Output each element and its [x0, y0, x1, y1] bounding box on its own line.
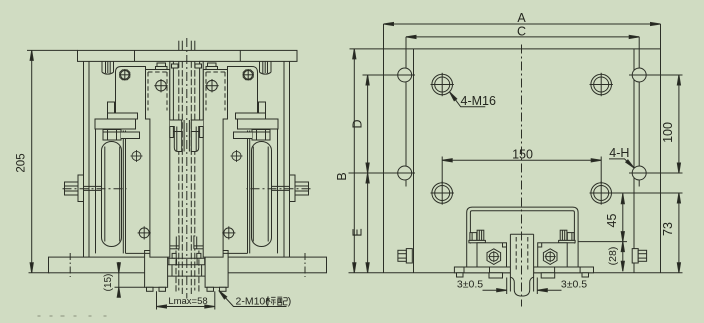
svg-text:E: E	[351, 228, 365, 236]
svg-text:45: 45	[605, 214, 619, 228]
L-piece horizontal	[108, 113, 138, 119]
dimension 3±0.5 left	[506, 278, 508, 295]
upper lever plate	[116, 67, 146, 114]
M16 hole bottom-left	[431, 181, 454, 204]
lower rail clip	[176, 237, 179, 249]
dimension 3±0.5 right	[536, 278, 538, 295]
main plate hidden recess	[148, 72, 167, 111]
dimension 28 line	[622, 242, 624, 272]
axle shaft lines	[84, 185, 102, 187]
svg-text:205: 205	[15, 153, 27, 172]
dimension 205 extension top	[27, 49, 78, 51]
screw main plate	[156, 80, 167, 91]
screw mid	[131, 150, 143, 162]
frame right lines	[122, 131, 124, 254]
axle bolt hex head	[65, 182, 79, 195]
dome housing outer	[467, 207, 578, 269]
guide rail top stub above beam	[178, 41, 180, 51]
svg-text:D: D	[351, 119, 365, 128]
clamp foot right	[534, 267, 594, 278]
dimension 45 line	[622, 193, 624, 242]
dimension Lmax=58 extensions	[156, 291, 158, 309]
dimension 150 extensions	[441, 157, 443, 184]
rail centerline	[186, 38, 188, 299]
dimension E line	[367, 173, 369, 273]
axle centerline	[63, 188, 127, 190]
spring post below beam	[101, 61, 103, 72]
spring nut	[103, 130, 121, 141]
axle bolt washer	[78, 175, 84, 202]
frame inner line	[88, 61, 90, 257]
clamp block left	[477, 243, 507, 268]
svg-text:3±0.5: 3±0.5	[457, 279, 483, 291]
corner hole bottom-right	[629, 166, 650, 180]
73 extension top	[610, 192, 683, 194]
dome housing inner	[470, 211, 574, 244]
svg-text:150: 150	[512, 148, 533, 162]
svg-text:(28): (28)	[607, 247, 619, 266]
rail clamp block at base	[168, 256, 206, 277]
plate top edge	[384, 48, 661, 50]
dimension 205 line	[31, 50, 33, 272]
dimension B line	[353, 49, 355, 273]
B extension top	[350, 48, 384, 50]
centerline vertical right view	[521, 45, 523, 307]
frame outer line	[83, 61, 85, 257]
corner hole top-right	[629, 68, 650, 82]
plate right edge	[660, 24, 662, 273]
guide rail hidden lines	[176, 61, 199, 294]
svg-text:B: B	[335, 172, 349, 180]
plate inner right line	[633, 49, 635, 273]
hole column line right	[638, 37, 640, 187]
45 extension bottom	[564, 241, 628, 243]
roller wheel	[102, 142, 122, 247]
clamp nut stack right	[559, 230, 576, 243]
dimension (15) line	[118, 262, 120, 297]
clamp nut stack left	[469, 230, 486, 243]
100 extension top	[647, 74, 683, 76]
svg-text:(15): (15)	[103, 274, 114, 292]
hanzi pei	[277, 297, 287, 305]
step bracket	[121, 132, 140, 139]
base hole centerline left	[69, 253, 71, 277]
side bolt right plan	[632, 249, 646, 263]
rail clip foot	[170, 120, 182, 152]
frame second line	[95, 129, 97, 253]
M16 hole bottom-right	[590, 181, 613, 204]
frame bottom ledge	[126, 252, 150, 254]
label 4-M16 leader	[450, 92, 486, 107]
rail clip bar	[170, 61, 174, 137]
dimension (15) extension	[115, 286, 145, 288]
dimension A line	[384, 23, 661, 25]
corner hole top-left	[395, 68, 416, 82]
beam bracket line right	[239, 50, 241, 61]
dimension 205 extension bottom	[29, 272, 50, 274]
corner hole bottom-left	[395, 166, 416, 180]
right clamp post below base	[205, 251, 228, 292]
screw lower	[138, 226, 151, 239]
left clamp post below base	[145, 251, 168, 292]
M16 hole top-right	[590, 73, 613, 96]
svg-text:2-M10(: 2-M10(	[236, 296, 270, 308]
100 extension bottom	[647, 172, 683, 174]
rail front face edges between clip feet	[183, 120, 185, 152]
side bolt left plan	[398, 249, 412, 263]
dimension 100 line	[678, 75, 680, 173]
dimension C line	[406, 36, 639, 38]
dimension 73 line	[678, 193, 680, 273]
svg-text:): )	[288, 296, 292, 308]
svg-text:73: 73	[661, 222, 675, 236]
screw upper lever hex	[120, 70, 130, 80]
hanzi biao	[266, 296, 276, 305]
dimension Lmax=58 line	[157, 306, 215, 308]
beam bracket line left	[134, 50, 136, 61]
D extension bottom / E top	[349, 172, 398, 174]
label 2-M10 leader	[219, 291, 287, 307]
dimension 150 line	[442, 159, 601, 161]
faint cut text bottom left	[38, 315, 107, 317]
dimension D line	[367, 75, 369, 173]
M16 hole top-left	[431, 73, 454, 96]
top adjuster bolt	[157, 63, 166, 67]
baseline	[349, 272, 683, 274]
main bracket plate	[146, 70, 170, 258]
svg-text:100: 100	[661, 122, 675, 143]
right roller assembly (mirror)	[191, 61, 310, 258]
rail stem plan	[510, 234, 533, 296]
svg-text:Lmax=58: Lmax=58	[168, 296, 207, 307]
L-piece vertical	[108, 102, 115, 113]
clamp block right	[538, 243, 568, 268]
spring seat bar	[95, 119, 136, 129]
svg-text:4-H: 4-H	[609, 146, 629, 160]
hole column line left	[405, 37, 407, 187]
crosshead beam	[78, 50, 298, 61]
base hole centerline right	[304, 253, 306, 277]
svg-text:4-M16: 4-M16	[461, 94, 496, 108]
plate inner left line	[413, 49, 415, 273]
washer near rail	[172, 64, 179, 68]
D extension top	[363, 74, 398, 76]
svg-text:3±0.5: 3±0.5	[561, 279, 587, 291]
svg-text:A: A	[517, 11, 526, 25]
base plate	[49, 257, 327, 273]
clamp foot left	[454, 267, 512, 278]
plate left edge	[383, 24, 385, 273]
svg-text:C: C	[517, 24, 526, 38]
